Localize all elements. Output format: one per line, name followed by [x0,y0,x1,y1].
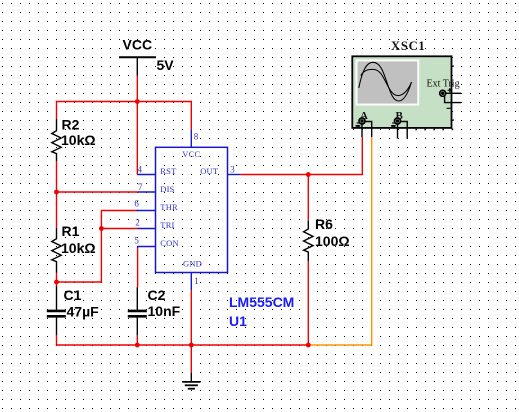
svg-text:100Ω: 100Ω [315,233,350,249]
svg-text:6: 6 [134,199,139,209]
svg-text:B: B [396,110,404,122]
svg-text:3: 3 [230,164,235,174]
svg-text:GND: GND [183,258,202,268]
svg-text:47µF: 47µF [67,304,100,320]
svg-text:C2: C2 [148,287,166,303]
svg-text:XSC1: XSC1 [391,39,425,53]
svg-text:U1: U1 [229,313,247,329]
svg-text:THR: THR [160,202,178,212]
svg-text:R6: R6 [315,216,333,232]
svg-text:VCC: VCC [182,149,200,159]
svg-text:4: 4 [138,164,143,174]
svg-text:C1: C1 [64,287,82,303]
svg-text:CON: CON [160,238,179,248]
svg-text:5: 5 [134,236,139,246]
svg-text:5V: 5V [157,57,175,73]
svg-text:7: 7 [138,182,143,192]
svg-text:2: 2 [135,218,140,228]
svg-text:TRI: TRI [160,220,174,230]
svg-text:RST: RST [160,166,177,176]
svg-text:R1: R1 [62,223,80,239]
svg-text:10nF: 10nF [148,303,181,319]
svg-text:1: 1 [194,276,199,286]
svg-text:A: A [360,110,368,122]
svg-text:Ext Trig: Ext Trig [427,79,460,90]
svg-text:DIS: DIS [160,184,174,194]
svg-text:10kΩ: 10kΩ [61,240,96,256]
svg-text:LM555CM: LM555CM [229,294,294,310]
svg-text:VCC: VCC [123,37,153,53]
svg-text:R2: R2 [62,117,80,133]
svg-text:OUT: OUT [200,166,219,176]
svg-text:8: 8 [194,131,199,141]
svg-text:10kΩ: 10kΩ [61,132,96,148]
